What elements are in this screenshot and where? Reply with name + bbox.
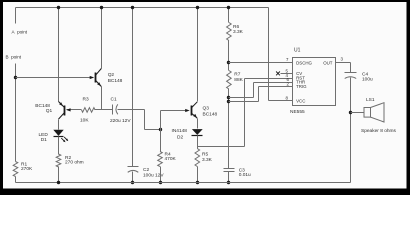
svg-text:220u 12V: 220u 12V (110, 118, 131, 124)
svg-text:0.01u: 0.01u (239, 172, 251, 178)
svg-text:C2: C2 (143, 167, 149, 173)
capacitor C3 plate bottom (224, 171, 235, 173)
transistor Q3 collector diagonal (191, 102, 197, 108)
wire R1 to bottom rail (15, 177, 17, 183)
svg-text:3.3K: 3.3K (202, 157, 213, 163)
wire junction R4 bottom (159, 181, 162, 184)
svg-text:U1: U1 (294, 48, 301, 54)
svg-text:OUT: OUT (323, 61, 333, 66)
capacitor C1 plate- curved (116, 104, 118, 114)
svg-text:R3: R3 (83, 97, 89, 103)
resistor R3 (82, 108, 96, 113)
svg-text:NE555: NE555 (290, 109, 305, 115)
capacitor C3 plate top (224, 168, 235, 170)
op-amp U1 NE555 box (293, 58, 336, 106)
wire OUT pin3 (336, 62, 351, 64)
wire VCC vertical to rail (268, 8, 270, 101)
wire TRIG vertical (258, 87, 260, 102)
svg-text:Q2: Q2 (108, 72, 115, 78)
wire Q3 emitter to D2 (197, 119, 199, 129)
wire to junction x159.5 (145, 129, 161, 131)
wire VCC pin8 horizontal (269, 100, 293, 102)
wire R4 to bottom rail (160, 167, 162, 183)
svg-text:VCC: VCC (296, 98, 305, 103)
svg-text:470K: 470K (165, 156, 177, 162)
svg-text:270 ohm: 270 ohm (65, 159, 84, 165)
wire junction C2 bottom (131, 181, 134, 184)
wire RST pin4 horizontal (245, 78, 293, 80)
wire Q1 base arrow (66, 108, 71, 111)
wire Q1 base stub (67, 109, 82, 111)
led D1 emission arrows (61, 137, 67, 142)
svg-text:C1: C1 (111, 97, 117, 103)
svg-text:LS1: LS1 (366, 97, 375, 103)
wire Q3 base arrow (185, 109, 190, 112)
svg-text:R7: R7 (234, 72, 240, 78)
wire DSCHG pin7 (229, 62, 293, 64)
wire junction TRIG node (227, 100, 230, 103)
wire Q1 collector to LED (58, 120, 60, 130)
wire junction rail x196.8 (196, 6, 199, 9)
transistor Q2 collector diagonal (96, 69, 102, 76)
wire C1 to corner (118, 109, 145, 111)
wire bottom ground rail (16, 182, 351, 184)
svg-text:100u 12V: 100u 12V (143, 172, 164, 178)
transistor Q2 bar (95, 73, 97, 83)
wire junction to R4 (160, 130, 162, 152)
wire rail to C2 (132, 8, 134, 167)
wire junction THR node (227, 96, 230, 99)
wire junction rail x228.4 (227, 6, 230, 9)
resistor R1 (13, 162, 18, 177)
wire C4 to speaker node (350, 78, 352, 183)
wire TRIG pin2 horizontal (259, 86, 293, 88)
wire junction R2 bottom (57, 181, 60, 184)
diode D2 cathode bar (192, 135, 203, 137)
svg-text:BC148: BC148 (108, 78, 123, 84)
wire R3 to C1 (95, 109, 113, 111)
wire THR to node (229, 97, 254, 99)
wire to speaker (351, 112, 365, 114)
svg-text:3.3K: 3.3K (233, 29, 244, 35)
resistor R4 (158, 152, 163, 167)
transistor Q3 bar (191, 106, 193, 116)
svg-text:10K: 10K (80, 118, 89, 124)
transistor Q1 collector diagonal (59, 113, 65, 119)
wire junction rail x58 (57, 6, 60, 9)
wire THR vertical (253, 83, 255, 98)
speaker LS1 horn (371, 103, 385, 122)
wire C2 to bottom rail (132, 172, 134, 183)
wire rail to Q3 collector (197, 8, 199, 102)
wire RST to D2 R5 node (198, 146, 245, 148)
svg-text:BC148: BC148 (203, 112, 218, 118)
wire corner down x144 (144, 110, 146, 130)
svg-text:BC148: BC148 (35, 103, 50, 109)
wire B to Q2 base (16, 77, 91, 79)
capacitor C2 plate- curved (128, 170, 139, 172)
wire to Q3 base (161, 110, 187, 112)
transistor Q3 emitter arrow (193, 114, 197, 118)
wire R6 to R7 (228, 41, 230, 71)
wire junction speaker node (349, 111, 352, 114)
wire rail to R6 (228, 8, 230, 23)
wire TRIG to node (229, 101, 259, 103)
capacitor C1 plate+ (112, 105, 114, 115)
wire Q2 emitter down (101, 87, 103, 110)
svg-text:Q1: Q1 (46, 108, 53, 114)
resistor R2 (56, 154, 61, 167)
wire D2 to R5 (197, 136, 199, 149)
svg-text:D1: D1 (41, 137, 47, 143)
capacitor C2 plate+ (128, 166, 139, 168)
svg-text:100u: 100u (362, 77, 373, 83)
transistor Q1 bar (64, 106, 66, 116)
capacitor C4 plate top (345, 72, 357, 74)
svg-text:D2: D2 (177, 134, 183, 140)
wire top supply rail (16, 7, 269, 9)
wire C3 to bottom rail (228, 172, 230, 183)
led D1 cathode bar (54, 136, 64, 138)
svg-text:270K: 270K (21, 166, 33, 172)
speaker LS1 body (364, 108, 371, 118)
transistor Q2 emitter diagonal (96, 80, 102, 86)
wire rail to Q1 emitter (58, 8, 60, 102)
wire RST vertical x244.2 (244, 79, 246, 147)
wire OUT down to C4 (350, 63, 352, 73)
wire R5 to bottom rail (197, 167, 199, 183)
transistor Q1 emitter arrow (59, 102, 63, 106)
wire junction rail x100.8 (100, 6, 103, 9)
wire junction node x159.5 (159, 128, 162, 131)
svg-text:Speaker 8 ohms: Speaker 8 ohms (361, 128, 397, 134)
svg-text:B point: B point (6, 55, 22, 60)
no-connect X on CV (276, 72, 280, 76)
wire junction rail x132.5 (131, 6, 134, 9)
svg-text:R5: R5 (202, 152, 208, 158)
svg-text:LED: LED (39, 132, 49, 138)
wire R7 to C3 (228, 89, 230, 169)
transistor Q3 emitter diagonal (191, 113, 197, 118)
diode D2 triangle (192, 129, 203, 135)
svg-text:A point: A point (12, 30, 28, 35)
wire junction B to Q2 base (14, 76, 17, 79)
wire THR pin6 horizontal (254, 82, 293, 84)
resistor R5 (195, 149, 200, 167)
wire rail to Q2 collector (101, 8, 103, 69)
svg-text:IN4148: IN4148 (172, 128, 188, 134)
wire CV stub pin5 (281, 73, 293, 75)
wire up to Q3 base run (160, 111, 162, 130)
capacitor C4 plate bottom curved (345, 77, 357, 79)
transistor Q1 emitter diagonal (59, 102, 65, 108)
wire A-point stub (15, 8, 17, 24)
wire Q2 base arrow (90, 76, 95, 79)
wire R2 to bottom rail (58, 167, 60, 183)
wire junction DSCHG node (227, 61, 230, 64)
wire B-point vertical (15, 64, 17, 162)
wire junction C3 bottom (227, 181, 230, 184)
svg-text:TRIG: TRIG (296, 84, 307, 89)
resistor R7 (227, 71, 232, 90)
resistor R6 (227, 23, 232, 41)
wire LED to R2 (58, 137, 60, 155)
transistor Q2 emitter arrow (97, 82, 101, 86)
svg-text:Q3: Q3 (203, 106, 210, 112)
wire junction R5 bottom (196, 181, 199, 184)
led D1 triangle (53, 130, 63, 136)
svg-text:88K: 88K (234, 77, 243, 83)
svg-text:DSCHG: DSCHG (296, 61, 312, 66)
